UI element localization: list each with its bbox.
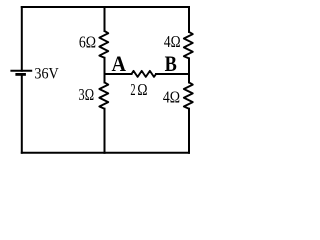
resistor 3ohm — [99, 82, 108, 108]
wire: middle branch top section — [104, 7, 106, 31]
svg-text:2: 2 — [130, 80, 135, 99]
resistor 4ohm bottom-right — [184, 82, 193, 108]
wire: left edge above battery — [21, 7, 23, 71]
battery 36V long plate (+) — [10, 70, 32, 72]
svg-text:6Ω: 6Ω — [79, 33, 96, 52]
wire: left edge below battery — [21, 74, 23, 152]
svg-text:4Ω: 4Ω — [164, 32, 181, 51]
wire: middle branch bottom section — [104, 109, 106, 153]
wire: middle branch between 6ohm and node A — [104, 58, 106, 83]
wire: top edge — [22, 6, 189, 8]
svg-text:B: B — [165, 51, 177, 76]
resistor 6ohm — [99, 31, 108, 58]
svg-text:36V: 36V — [34, 65, 59, 83]
wire: right edge bottom section — [188, 109, 190, 153]
wire: 2ohm to node B — [156, 73, 189, 75]
wire: node A to 2ohm — [105, 73, 132, 75]
svg-text:4Ω: 4Ω — [163, 87, 180, 106]
resistor 4ohm top-right — [184, 32, 193, 59]
resistor 2ohm — [132, 71, 157, 77]
svg-text:3Ω: 3Ω — [78, 85, 94, 104]
wire: bottom edge — [22, 152, 189, 154]
wire: right edge top section — [188, 7, 190, 32]
wire: right edge middle section — [188, 58, 190, 82]
svg-text:Ω: Ω — [137, 80, 147, 99]
svg-text:A: A — [112, 51, 127, 76]
battery 36V short plate (-) — [15, 73, 26, 76]
